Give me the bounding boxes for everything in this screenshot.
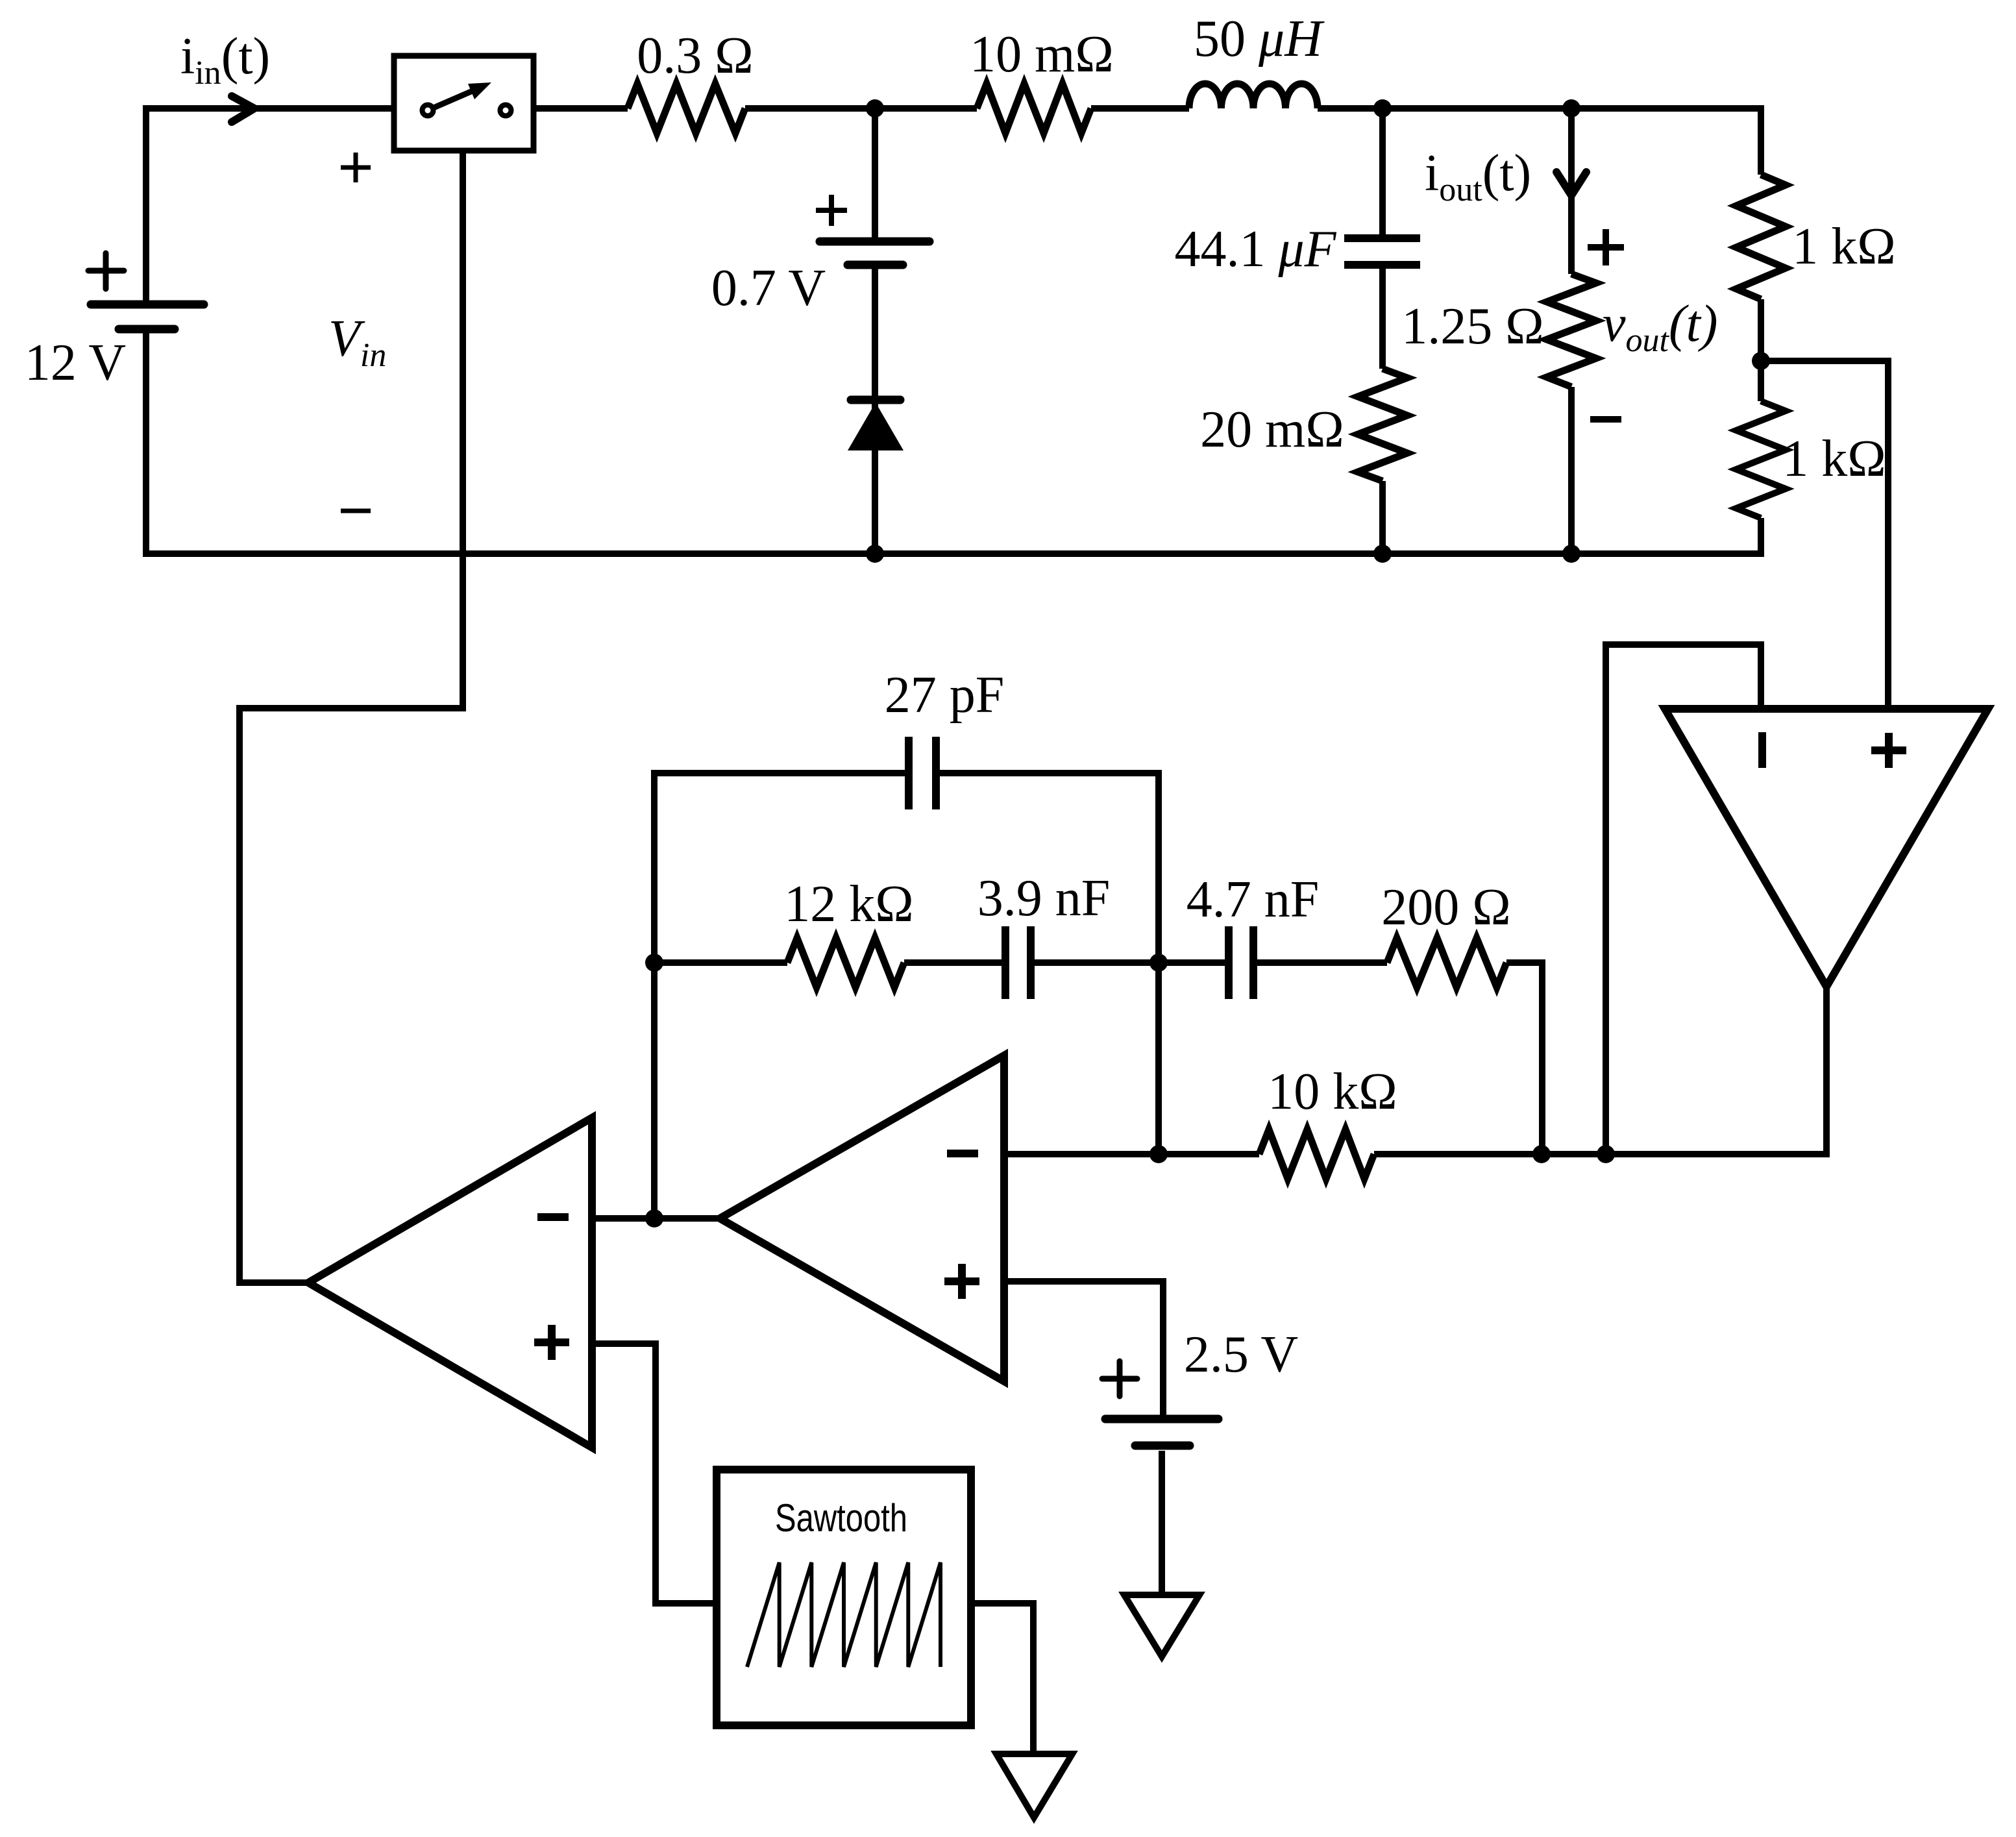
plus sign 2.5V bbox=[1102, 1361, 1137, 1396]
svg-text:iin(t): iin(t) bbox=[180, 28, 270, 92]
diode triangle bbox=[848, 402, 904, 450]
resistor 12 kohm bbox=[787, 938, 904, 987]
wire 200ohm leg down bbox=[1506, 963, 1542, 1154]
node dot bottom diode branch bbox=[866, 545, 884, 563]
node dot feedback mid bbox=[1149, 954, 1168, 972]
battery 0.7V short plate bbox=[848, 261, 903, 269]
inductor 50 uH bbox=[1189, 84, 1318, 108]
minus sign op-amp U2 bbox=[947, 1150, 978, 1157]
resistor 0.3 ohm bbox=[628, 84, 745, 133]
svg-text:50 μH: 50 μH bbox=[1194, 10, 1325, 68]
node dot top diode branch bbox=[866, 99, 884, 117]
svg-text:Sawtooth: Sawtooth bbox=[775, 1496, 907, 1540]
wire 10k line left bbox=[1004, 1151, 1259, 1157]
wire 10k line right and U3 output bbox=[1374, 987, 1826, 1154]
wire op-amp U3 minus input loop bbox=[1606, 645, 1761, 1154]
wire 12k to 3.9nF bbox=[904, 959, 1005, 966]
wire U1 minus input to U2 output bbox=[592, 1215, 720, 1222]
node dot U3 minus leg bbox=[1597, 1145, 1615, 1163]
wire 0.7V diode branch upper bbox=[872, 108, 878, 238]
wire divider tap to op-amp plus input bbox=[1761, 361, 1888, 709]
svg-text:1 kΩ: 1 kΩ bbox=[1782, 430, 1886, 487]
battery 12V long plate bbox=[91, 301, 204, 309]
node dot U1 minus input bbox=[645, 1209, 663, 1227]
wire 2.5V to ground bbox=[1159, 1451, 1165, 1595]
plus sign op-amp U1 bbox=[534, 1325, 569, 1360]
capacitor 44.1uF plates bbox=[1344, 238, 1420, 265]
minus sign Vin bbox=[341, 509, 371, 513]
plus sign Vin bbox=[341, 153, 371, 182]
arrow switch arm head bbox=[468, 82, 491, 99]
svg-text:200 Ω: 200 Ω bbox=[1381, 879, 1510, 936]
node dot top 1.25ohm branch bbox=[1562, 99, 1580, 117]
plus sign op-amp U3 bbox=[1871, 733, 1906, 768]
battery 2.5V long plate bbox=[1105, 1415, 1218, 1424]
op-amp U1 triangle bbox=[308, 1118, 592, 1448]
wire top rail right segment and right rail upper bbox=[1318, 108, 1761, 175]
svg-text:10 kΩ: 10 kΩ bbox=[1268, 1063, 1397, 1120]
wire feedback node line to 12k bbox=[654, 959, 787, 966]
minus sign op-amp U3 bbox=[1758, 732, 1766, 768]
switch contact right bbox=[500, 105, 511, 116]
svg-text:vout(t): vout(t) bbox=[1603, 295, 1717, 359]
node dot 200ohm leg bbox=[1532, 1145, 1551, 1163]
resistor 10 mohm bbox=[977, 84, 1091, 133]
wire capacitor 44.1uF branch upper bbox=[1379, 108, 1386, 235]
resistor 1.25 ohm bbox=[1547, 274, 1596, 387]
capacitor 3.9 nF plates bbox=[1005, 926, 1031, 999]
switch box bbox=[394, 56, 534, 151]
capacitor 4.7 nF plates bbox=[1229, 926, 1253, 999]
wire U2 plus input to 2.5V bbox=[1004, 1281, 1163, 1415]
node dot 10k mid node bbox=[1149, 1145, 1168, 1163]
wire 3.9nF to 4.7nF bbox=[1031, 959, 1229, 966]
wire 27pF top right and right vertical bbox=[936, 773, 1159, 1154]
switch contact left bbox=[423, 105, 434, 116]
node dot top 44.1uF branch bbox=[1373, 99, 1392, 117]
resistor 200 ohm bbox=[1387, 938, 1506, 987]
plus sign 12V bbox=[88, 253, 124, 289]
wire 1.25 ohm to bottom rail bbox=[1568, 387, 1575, 554]
resistor 1 kohm upper bbox=[1736, 175, 1786, 299]
plus sign op-amp U2 bbox=[944, 1264, 979, 1299]
svg-text:44.1 μF: 44.1 μF bbox=[1174, 221, 1336, 278]
node dot divider tap bbox=[1752, 352, 1770, 370]
capacitor 27 pF plates bbox=[909, 737, 936, 809]
wire U1 plus input to sawtooth bbox=[592, 1344, 717, 1603]
svg-text:1 kΩ: 1 kΩ bbox=[1792, 218, 1895, 275]
battery 2.5V short plate bbox=[1135, 1442, 1190, 1450]
op-amp U3 triangle bbox=[1665, 709, 1988, 987]
diode cathode bar bbox=[851, 396, 900, 404]
ground symbol 2.5V bbox=[1124, 1595, 1199, 1657]
sawtooth waveform bbox=[747, 1562, 940, 1667]
ground symbol sawtooth bbox=[996, 1754, 1072, 1818]
wire sawtooth output to ground bbox=[971, 1603, 1033, 1754]
arrow i_in chevron bbox=[232, 96, 254, 122]
svg-text:27 pF: 27 pF bbox=[885, 667, 1005, 724]
wire 4.7nF to 200ohm bbox=[1253, 959, 1387, 966]
node dot bottom 20mohm branch bbox=[1373, 545, 1392, 563]
resistor 10 kohm bbox=[1259, 1129, 1374, 1179]
wire top rail left segment and left rail upper bbox=[146, 108, 419, 301]
sawtooth generator box bbox=[717, 1470, 971, 1725]
wire top rail 0.3ohm to 10mohm bbox=[745, 105, 977, 112]
svg-text:0.3 Ω: 0.3 Ω bbox=[637, 27, 753, 84]
node dot feedback left bbox=[645, 954, 663, 972]
svg-text:12 V: 12 V bbox=[25, 334, 126, 391]
svg-text:1.25 Ω: 1.25 Ω bbox=[1401, 298, 1543, 355]
wire between 1k resistors bbox=[1758, 299, 1764, 401]
wire diode branch lower bbox=[872, 269, 878, 554]
op-amp U2 triangle bbox=[720, 1055, 1004, 1381]
svg-text:3.9 nF: 3.9 nF bbox=[977, 870, 1111, 927]
battery 12V short plate bbox=[119, 325, 175, 334]
svg-text:20 mΩ: 20 mΩ bbox=[1200, 401, 1344, 458]
switch leg wire to comparator bbox=[240, 151, 463, 1283]
wire 1.25 ohm branch upper bbox=[1568, 108, 1575, 274]
svg-text:4.7 nF: 4.7 nF bbox=[1186, 871, 1320, 928]
svg-text:10 mΩ: 10 mΩ bbox=[970, 26, 1114, 83]
wire 44.1uF to 20mohm bbox=[1379, 268, 1386, 369]
switch arm bbox=[434, 91, 473, 108]
plus sign 0.7V bbox=[816, 195, 847, 226]
plus sign vout bbox=[1588, 229, 1624, 265]
resistor 1 kohm lower bbox=[1736, 401, 1786, 518]
svg-text:12 kΩ: 12 kΩ bbox=[784, 876, 913, 933]
wire top rail 10mohm to inductor bbox=[1091, 105, 1189, 112]
svg-text:0.7 V: 0.7 V bbox=[711, 260, 826, 317]
svg-text:Vin: Vin bbox=[328, 310, 386, 374]
wire top rail from switch to 0.3 ohm bbox=[514, 105, 628, 112]
minus sign vout bbox=[1590, 416, 1621, 423]
battery 0.7V long plate bbox=[820, 238, 929, 246]
node dot bottom 1.25ohm branch bbox=[1562, 545, 1580, 563]
arrow i_out chevron bbox=[1556, 172, 1586, 195]
wire 20mohm to bottom rail bbox=[1379, 481, 1386, 554]
wire left rail lower, bottom rail, right rail lower bbox=[146, 333, 1761, 554]
wire 27pF loop left vertical and top bbox=[654, 773, 909, 1218]
svg-text:2.5 V: 2.5 V bbox=[1184, 1326, 1298, 1383]
svg-text:iout(t): iout(t) bbox=[1425, 145, 1531, 208]
minus sign op-amp U1 bbox=[537, 1213, 569, 1221]
resistor 20 mohm bbox=[1358, 369, 1407, 481]
